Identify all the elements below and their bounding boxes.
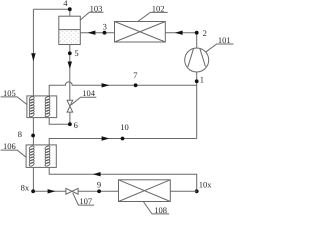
svg-text:7: 7 xyxy=(133,70,137,80)
arrow left on wire 3 xyxy=(88,31,96,35)
arrow down on left vertical xyxy=(31,53,35,61)
coil right hx105 xyxy=(45,96,51,118)
arrow right on 8x wire xyxy=(48,189,56,193)
node 1 xyxy=(195,79,199,83)
arrow right on wire 10 xyxy=(102,136,110,140)
wire 7 (evaporator 105 outlet to suction) xyxy=(49,82,197,96)
wire 10 (hx106 outlet to suction) xyxy=(49,139,197,145)
node 3 xyxy=(103,31,107,35)
node 5 xyxy=(68,51,72,55)
svg-text:4: 4 xyxy=(63,0,68,8)
svg-text:6: 6 xyxy=(74,120,78,130)
node 4 xyxy=(68,7,72,11)
heat exchanger 105 xyxy=(27,96,57,118)
wire 5 (vessel bottom to valve 104) xyxy=(69,45,71,101)
wire 3 (hx102 to vessel) xyxy=(80,32,114,34)
node 6 xyxy=(68,122,72,126)
wire return from hx108 to hx106 (above 108) xyxy=(49,167,197,191)
svg-text:8x: 8x xyxy=(21,183,30,193)
valve 107 xyxy=(66,188,78,194)
wire hx108 right to node 10x xyxy=(170,190,196,192)
node 10 xyxy=(121,137,125,141)
coil left hx105 xyxy=(29,96,35,118)
node 8x xyxy=(31,189,35,193)
arrow down on wire 5 xyxy=(68,62,72,69)
wire left main vertical xyxy=(32,9,34,96)
node 7 xyxy=(134,83,138,87)
wire 2 (compressor discharge to hx102) xyxy=(165,33,196,48)
node 2 xyxy=(195,31,199,35)
svg-text:2: 2 xyxy=(203,28,207,38)
svg-text:10: 10 xyxy=(120,122,129,132)
wire 6 (valve 104 to hx105 right coil) xyxy=(49,112,70,124)
vessel 103 xyxy=(59,16,81,44)
heat exchanger 106 xyxy=(26,145,56,168)
arrow left on wire 2 xyxy=(175,31,183,35)
heat exchanger 108 xyxy=(119,180,171,202)
compressor 101 xyxy=(185,48,209,72)
expansion valve 104 xyxy=(67,100,73,112)
coil left hx106 xyxy=(29,145,35,167)
arrow right on wire 7 xyxy=(102,83,110,87)
svg-text:1: 1 xyxy=(200,75,204,85)
wire suction vertical (node 1) xyxy=(196,72,198,139)
svg-text:5: 5 xyxy=(74,48,78,58)
arrow left on return wire xyxy=(93,172,101,176)
heat exchanger 102 xyxy=(115,22,166,43)
svg-text:9: 9 xyxy=(97,180,101,190)
svg-text:10x: 10x xyxy=(199,179,213,189)
svg-text:8: 8 xyxy=(18,129,22,139)
wire 8x to hx108 xyxy=(33,190,118,192)
node 9 xyxy=(97,189,101,193)
svg-text:3: 3 xyxy=(103,21,107,31)
coil right hx106 xyxy=(45,145,51,167)
wire node4 top line xyxy=(33,9,69,16)
node 8 xyxy=(31,134,35,138)
node 10x xyxy=(195,189,199,193)
label 103 xyxy=(90,3,103,13)
